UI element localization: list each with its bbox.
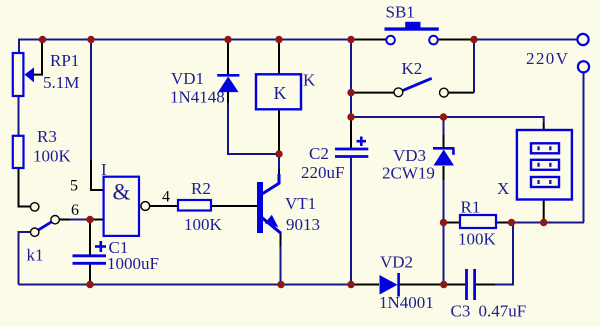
wire K2 branch right stub: [448, 41, 474, 93]
svg-text:100K: 100K: [184, 215, 223, 234]
switch K2: [394, 78, 448, 97]
svg-text:100K: 100K: [33, 147, 72, 166]
node row117 VD3: [440, 113, 447, 120]
wire VD1 column: [228, 41, 279, 154]
svg-text:SB1: SB1: [386, 3, 415, 22]
wire relay K column / collector: [278, 41, 280, 175]
svg-text:5.1M: 5.1M: [43, 73, 79, 92]
relay K: [256, 74, 301, 109]
wire left column RP1-R3: [19, 96, 31, 207]
svg-text:R1: R1: [461, 198, 481, 217]
svg-text:VD1: VD1: [171, 69, 204, 88]
wire C1 column: [89, 220, 91, 285]
potentiometer RP1: [13, 53, 34, 96]
svg-text:R3: R3: [37, 127, 57, 146]
diode VD1: [217, 75, 239, 92]
wire VD3 column: [443, 118, 445, 285]
capacitor C3: [467, 269, 475, 300]
svg-text:100K: 100K: [458, 230, 497, 249]
resistor R3: [13, 136, 24, 168]
node VD2-C3: [440, 281, 447, 288]
wire top bus right of SB1: [438, 39, 578, 41]
node top SB1 right: [470, 36, 477, 43]
node K2 left: [347, 89, 354, 96]
svg-text:1N4001: 1N4001: [379, 293, 434, 312]
capacitor C2: [335, 137, 368, 157]
node C3 top: [508, 219, 515, 226]
svg-text:k1: k1: [27, 246, 44, 265]
svg-text:K: K: [303, 71, 316, 90]
resistor R2: [178, 200, 211, 211]
svg-text:VD2: VD2: [380, 253, 413, 272]
zener diode VD3: [433, 148, 454, 165]
node top VD1: [224, 36, 231, 43]
wire gate pin5: [91, 40, 104, 191]
svg-text:K2: K2: [402, 59, 423, 78]
wire gate output to R2 to VT1 base: [150, 205, 257, 207]
wire right edge vertical: [583, 72, 585, 222]
node X bottom: [540, 219, 547, 226]
wire emitter column: [280, 233, 282, 285]
wire middle column x=351: [350, 41, 352, 285]
svg-text:9013: 9013: [286, 215, 320, 234]
switch k1: [31, 203, 60, 237]
node C2 bottom: [347, 281, 354, 288]
svg-text:1N4148: 1N4148: [170, 88, 225, 107]
wire row y117 to X: [351, 117, 544, 130]
svg-text:2CW19: 2CW19: [382, 164, 435, 183]
node emitter bottom: [277, 281, 284, 288]
svg-text:K: K: [274, 83, 287, 103]
resistor R1: [460, 215, 496, 228]
transistor VT1: [257, 174, 281, 233]
wire top bus left: [19, 40, 386, 54]
svg-text:C2: C2: [309, 144, 329, 163]
node 6: [86, 216, 93, 223]
terminal 220V bottom: [578, 61, 589, 72]
wire X bottom stub: [543, 199, 545, 223]
svg-text:220uF: 220uF: [301, 163, 344, 182]
svg-text:VT1: VT1: [285, 194, 316, 213]
wire R1 row: [444, 222, 585, 224]
node top mid: [347, 36, 354, 43]
node R1 left: [440, 219, 447, 226]
capacitor C1: [73, 241, 107, 263]
node row117 left: [347, 113, 354, 120]
socket X: [517, 130, 572, 200]
node top RP1 wiper: [39, 36, 46, 43]
svg-text:RP1: RP1: [50, 51, 79, 70]
NAND gate U1 "I": [104, 177, 150, 236]
wire k1 to bottom-left corner: [19, 232, 31, 285]
svg-text:220V: 220V: [526, 49, 569, 68]
push button SB1: [385, 22, 439, 45]
svg-text:R2: R2: [191, 179, 211, 198]
node top K: [275, 36, 282, 43]
svg-text:I: I: [101, 160, 107, 179]
diode VD2: [380, 273, 399, 297]
svg-text:VD3: VD3: [393, 146, 426, 165]
wire bottom bus: [19, 223, 514, 285]
svg-text:6: 6: [71, 202, 79, 219]
wire RP1 wiper: [32, 40, 42, 75]
svg-text:1000uF: 1000uF: [107, 254, 159, 273]
svg-text:X: X: [497, 179, 509, 198]
svg-text:0.47uF: 0.47uF: [479, 302, 527, 321]
svg-text:C3: C3: [451, 302, 471, 321]
node VD1-collector: [275, 150, 282, 157]
wire K2 branch left stub: [352, 92, 394, 94]
node top pin5: [87, 36, 94, 43]
svg-text:5: 5: [70, 178, 78, 195]
svg-text:&: &: [113, 180, 131, 205]
wire gate pin6 row: [59, 219, 104, 221]
svg-text:4: 4: [162, 189, 170, 206]
node C1 bottom: [86, 281, 93, 288]
terminal 220V top: [577, 34, 588, 45]
